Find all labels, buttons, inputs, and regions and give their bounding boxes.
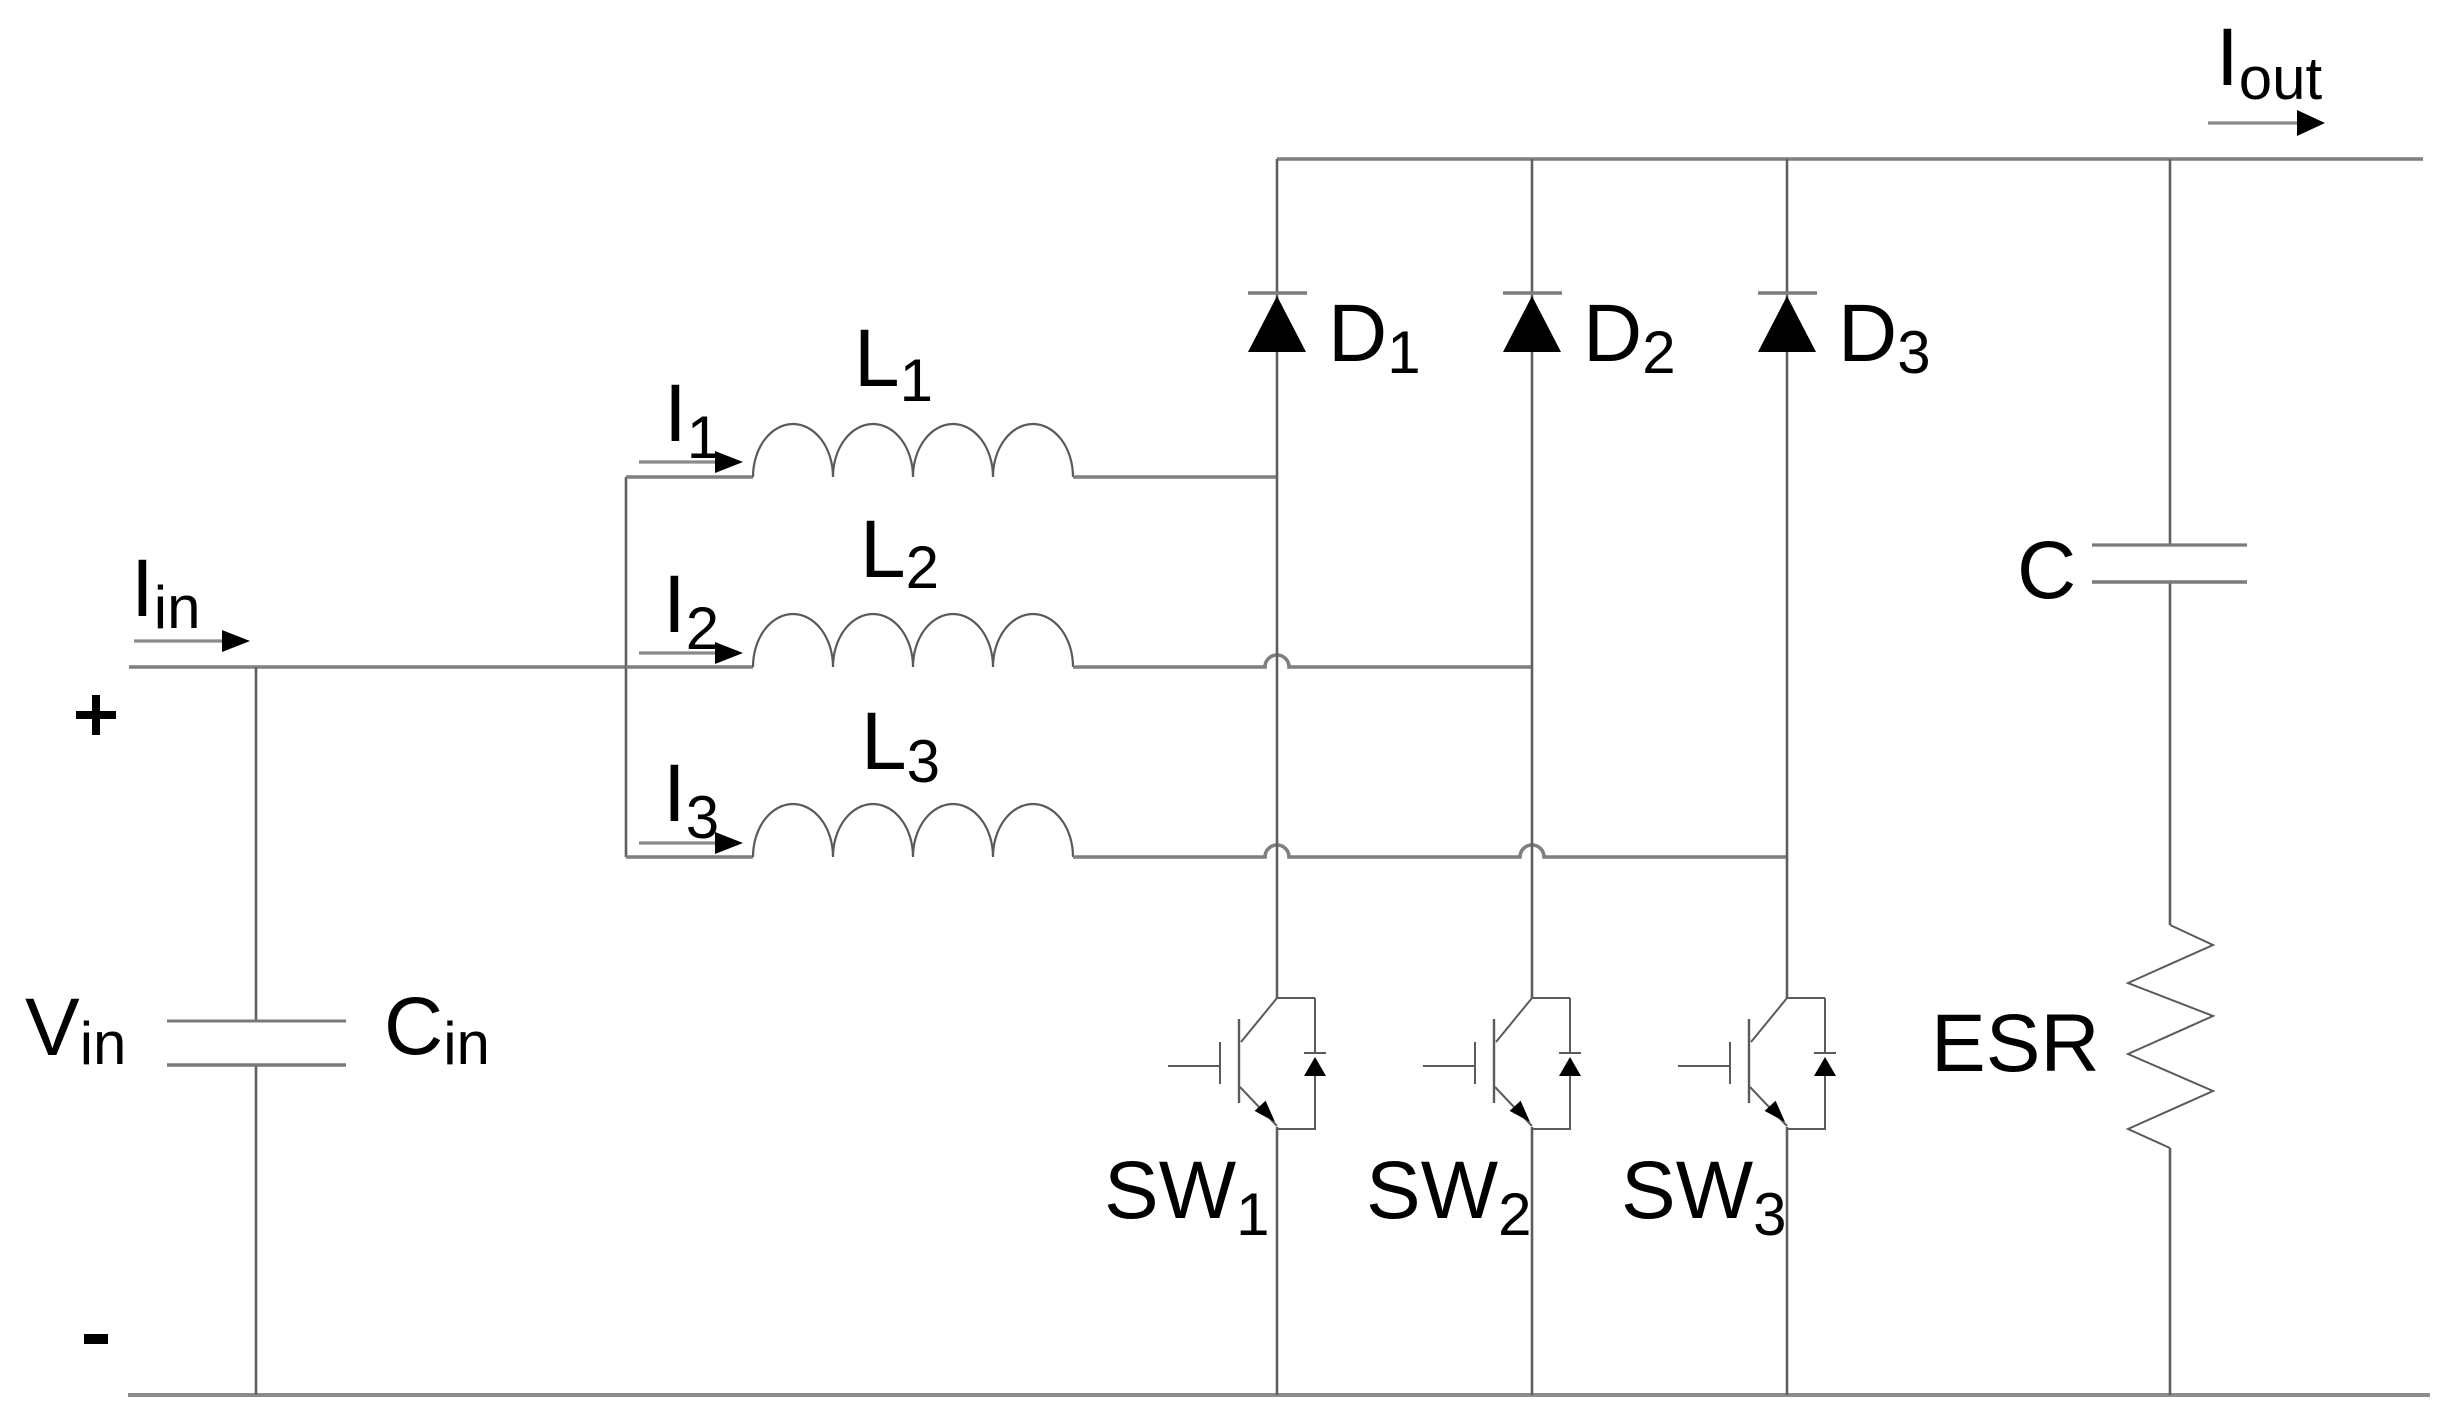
svg-text:D2: D2 [1583, 288, 1676, 386]
wire Cin vertical upper [255, 667, 258, 1021]
capacitor C [2092, 545, 2247, 582]
arrow Iout [2208, 110, 2325, 136]
label I2 [663, 559, 719, 662]
diode D2 [1503, 293, 1562, 352]
svg-text:C: C [2017, 525, 2076, 616]
svg-text:I1: I1 [664, 368, 720, 471]
capacitor Cin [167, 1021, 346, 1065]
diode D3 [1758, 293, 1817, 352]
svg-text:Vin: Vin [25, 982, 126, 1077]
label Iin [131, 543, 201, 641]
label SW2 [1366, 1145, 1531, 1248]
wire L3 left [626, 855, 753, 859]
label - terminal [84, 1334, 108, 1344]
svg-text:Iout: Iout [2216, 12, 2323, 112]
label I3 [663, 748, 719, 851]
label D2 [1583, 288, 1676, 386]
label Cin [384, 981, 490, 1077]
svg-text:ESR: ESR [1931, 998, 2100, 1089]
wire output column middle [2169, 582, 2172, 925]
wire D3 column upper [1786, 159, 1789, 998]
wire D2 column upper [1531, 159, 1534, 998]
wire top output bus [1277, 157, 2423, 161]
wire output column lower [2169, 1148, 2172, 1395]
inductor L2 [753, 614, 1073, 667]
wire D1 column upper [1276, 159, 1279, 998]
diode D1 [1248, 293, 1307, 352]
svg-text:D1: D1 [1328, 288, 1421, 386]
svg-text:SW3: SW3 [1621, 1145, 1786, 1248]
label L1 [854, 313, 933, 414]
label SW1 [1104, 1145, 1269, 1248]
inductor L3 [753, 804, 1073, 857]
svg-text:I2: I2 [663, 559, 719, 662]
arrow I1 [639, 451, 743, 473]
wire L2 left [626, 665, 753, 669]
wire input (Iin) [129, 665, 626, 669]
label D3 [1838, 288, 1931, 386]
inductor L1 [753, 424, 1073, 477]
svg-text:L1: L1 [854, 313, 933, 414]
wire D3 column lower [1786, 1127, 1789, 1395]
label + terminal [76, 695, 116, 735]
wire bottom return bus [128, 1393, 2430, 1397]
transistor SW3 (IGBT) [1678, 998, 1836, 1129]
wire L3 right with hops over D1 and D2 [1073, 845, 1787, 857]
svg-text:L3: L3 [861, 696, 940, 795]
resistor ESR [2128, 925, 2213, 1148]
label Vin [25, 982, 126, 1077]
svg-text:L2: L2 [860, 504, 939, 601]
arrow Iin [134, 630, 250, 652]
svg-text:I3: I3 [663, 748, 719, 851]
label SW3 [1621, 1145, 1786, 1248]
label I1 [664, 368, 720, 471]
wire D2 column lower [1531, 1127, 1534, 1395]
svg-text:SW1: SW1 [1104, 1145, 1269, 1248]
label L2 [860, 504, 939, 601]
arrow I3 [639, 832, 743, 854]
wire L1 right [1073, 475, 1277, 479]
svg-text:Iin: Iin [131, 543, 201, 641]
label L3 [861, 696, 940, 795]
transistor SW1 (IGBT) [1168, 998, 1326, 1129]
wire output column upper [2169, 159, 2172, 545]
svg-text:SW2: SW2 [1366, 1145, 1531, 1248]
wire L1 left stub [626, 475, 753, 479]
svg-text:Cin: Cin [384, 981, 490, 1077]
label Iout [2216, 12, 2323, 112]
wire Cin vertical lower [255, 1065, 258, 1395]
wire branch vertical [625, 477, 628, 857]
label D1 [1328, 288, 1421, 386]
wire D1 column lower [1276, 1127, 1279, 1395]
arrow I2 [639, 642, 743, 664]
transistor SW2 (IGBT) [1423, 998, 1581, 1129]
svg-text:D3: D3 [1838, 288, 1931, 386]
wire L2 right with hop over D1 [1073, 655, 1532, 667]
